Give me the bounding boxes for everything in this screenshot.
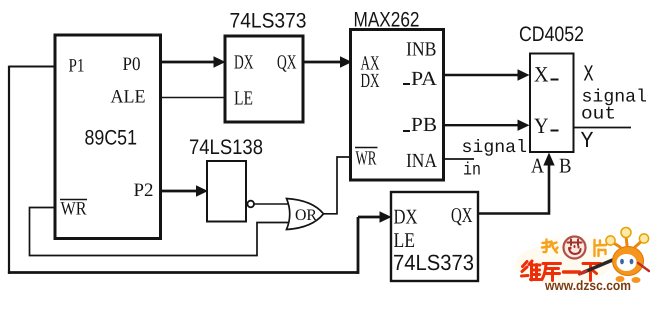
svg-text:in: in — [463, 161, 481, 181]
svg-text:WR: WR — [356, 148, 377, 170]
mascot crown — [612, 236, 643, 247]
pin label Y_ (U4) — [534, 113, 559, 138]
mascot body — [613, 247, 644, 276]
wire P1 bus to bottom latch DX (left and bottom run) — [8, 66, 392, 274]
svg-text:74LS373: 74LS373 — [393, 250, 474, 275]
wire U2 QX to MAX262 AX (bus arrow) — [302, 56, 352, 67]
svg-text:X: X — [584, 62, 594, 88]
svg-text:DX: DX — [394, 205, 418, 229]
hanzi zhao (find) — [542, 240, 558, 253]
wire P0 to U2 DX (bus arrow) — [161, 56, 226, 67]
svg-text:signal: signal — [462, 138, 528, 158]
pin label X_ (U4) — [534, 62, 559, 87]
net label signal in — [462, 138, 528, 181]
svg-text:B: B — [559, 154, 572, 178]
wire MAX262 _PA to CD4052 X_ (arrow) — [444, 69, 530, 80]
svg-text:out: out — [581, 105, 616, 125]
wire CD4052 Y output line — [574, 127, 632, 129]
svg-text:PB: PB — [411, 114, 437, 136]
hanzi wei (red) — [522, 261, 541, 280]
svg-text:89C51: 89C51 — [85, 127, 138, 150]
inverter bubble on 74LS138 output — [247, 201, 254, 208]
svg-text:74LS373: 74LS373 — [230, 10, 307, 33]
filter U3 MAX262 box — [351, 30, 444, 181]
hanzi xin (chip core) — [568, 240, 582, 255]
net label X signal out — [581, 62, 647, 125]
OR gate G1 — [287, 199, 324, 230]
wire signal-in stub to MAX262 INA — [444, 158, 475, 160]
hanzi yi (one, red) — [564, 270, 580, 273]
hanzi pian (piece) — [595, 240, 607, 256]
wire OR gate output to MAX262 WR — [324, 157, 351, 214]
IC U1 89C51 box — [55, 35, 161, 239]
svg-text:LE: LE — [394, 228, 416, 252]
mascot tassel and feet — [638, 263, 649, 271]
svg-text:Y: Y — [581, 128, 594, 154]
wire ALE to U2 LE — [160, 97, 225, 99]
pin label _PB (U3) — [403, 114, 437, 136]
svg-text:P1: P1 — [69, 56, 85, 77]
svg-text:DX: DX — [234, 52, 254, 74]
magnifier ring — [564, 237, 586, 259]
svg-text:A: A — [531, 154, 545, 178]
wire 89C51 WR to OR gate lower input — [30, 208, 289, 256]
svg-text:INA: INA — [406, 150, 437, 172]
wire 74LS138 bubble to OR gate upper input — [254, 203, 289, 205]
mascot pen — [583, 256, 622, 273]
latch U2 74LS373 box — [225, 36, 303, 122]
pin label WR (active low) of MAX262 — [355, 148, 378, 170]
svg-text:LE: LE — [234, 88, 253, 110]
svg-text:WR: WR — [61, 199, 87, 220]
pin label _PA (U3) — [403, 68, 438, 90]
pin label WR (active low) of 89C51 — [60, 199, 87, 220]
svg-text:DX: DX — [361, 70, 380, 92]
svg-text:P0: P0 — [123, 54, 141, 75]
hanzi xia (down, red) — [583, 264, 601, 281]
watermark logo dzsc.com — [515, 228, 649, 294]
svg-text:INB: INB — [406, 39, 437, 61]
svg-text:CD4052: CD4052 — [519, 23, 584, 46]
svg-text:PA: PA — [411, 68, 438, 90]
wire U6 QX up to CD4052 B select (arrow) — [478, 153, 555, 214]
svg-text:QX: QX — [451, 203, 473, 227]
svg-text:OR: OR — [295, 207, 317, 224]
hanzi ku (red) — [542, 264, 561, 281]
svg-text:74LS138: 74LS138 — [189, 136, 263, 159]
svg-text:ALE: ALE — [111, 87, 146, 108]
svg-text:QX: QX — [277, 52, 297, 74]
decoder U5 74LS138 box — [207, 161, 246, 222]
mux U4 CD4052 box — [530, 54, 574, 153]
svg-text:Y: Y — [534, 113, 549, 138]
wire MAX262 _PB to CD4052 Y_ (arrow) — [444, 120, 530, 131]
svg-text:P2: P2 — [134, 180, 154, 201]
wire P2 to 74LS138 (bus arrow) — [161, 185, 209, 196]
latch U6 74LS373 box — [391, 192, 478, 281]
svg-text:X: X — [534, 62, 549, 87]
